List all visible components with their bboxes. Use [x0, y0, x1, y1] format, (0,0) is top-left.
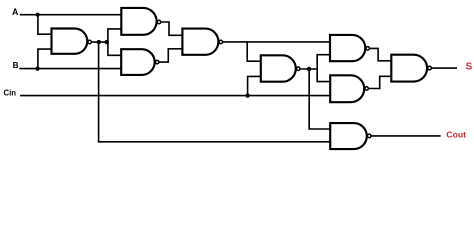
svg-text:S: S [466, 62, 473, 73]
junction dot on A wire [36, 13, 40, 17]
bubble G1 output [88, 40, 92, 44]
wire N1 branch up to G2 bottom input [108, 29, 121, 42]
svg-text:A: A [12, 7, 19, 17]
bubble G9 output [367, 134, 371, 138]
wire B branch up to G1 bottom input [38, 49, 52, 69]
wire H output of G4 to G6 top input [223, 41, 330, 43]
junction dot on N5 wire [307, 67, 312, 72]
nand gate G4 inputs N2,N3 output H [182, 29, 218, 55]
svg-text:Cout: Cout [446, 129, 466, 139]
wire Cin branch up to G5 bottom input [248, 76, 261, 95]
bubble G8 output [428, 66, 432, 70]
wire B input [20, 68, 121, 70]
bubble G4 output [219, 40, 223, 44]
nand gate G9 inputs N5,N1 output Cout [330, 123, 367, 149]
wire G3 output to G4 bottom input [159, 49, 182, 62]
bubble G6 output [366, 47, 370, 51]
nand gate G7 inputs N5,Cin [330, 75, 364, 102]
wire H branch down to G5 top input [247, 42, 261, 61]
bubble G3 output [155, 60, 159, 64]
wire N1 drop to bottom rail into G9 [99, 42, 331, 142]
svg-text:Cin: Cin [4, 89, 17, 98]
junction dot N1 to G2 G3 [105, 40, 109, 44]
wire N5 branch down to G7 top input [317, 69, 330, 82]
wire N5 branch up to G6 bottom input [317, 55, 330, 69]
wire Cout output of G9 [371, 135, 440, 137]
junction dot N1 to rail [97, 40, 101, 44]
nand gate G5 inputs H,Cin output N5 [261, 55, 296, 81]
wire S output of G8 [432, 67, 457, 69]
wire G2 output to G4 top input [161, 22, 182, 35]
bubble G7 output [365, 87, 369, 91]
svg-text:B: B [13, 61, 19, 70]
wire Cin input to G7 bottom input [21, 95, 330, 97]
junction dot on Cin wire [245, 93, 249, 97]
wire N1 branch down to G3 top input [108, 42, 121, 55]
nand gate G6 inputs H,N5 [330, 35, 365, 61]
wire A branch down to G1 top input [38, 15, 52, 35]
bubble G2 output [157, 20, 161, 24]
nand gate G3 inputs N1,B [121, 49, 154, 75]
wire A input [21, 14, 122, 16]
nand gate G1 inputs A,B [52, 29, 88, 54]
wire N5 drop to G9 top input [309, 69, 330, 129]
wire G6 output to G8 top input [370, 48, 392, 60]
nand gate G2 inputs A,N1 [121, 8, 156, 35]
junction dot on B wire [35, 67, 39, 71]
wire N5 output of G5 [300, 68, 317, 70]
wire G7 output to G8 bottom input [369, 76, 392, 88]
bubble G5 output [296, 67, 300, 71]
nand gate G8 inputs N6,N7 output S [391, 55, 427, 82]
wire N1 output of G1 [92, 41, 108, 43]
